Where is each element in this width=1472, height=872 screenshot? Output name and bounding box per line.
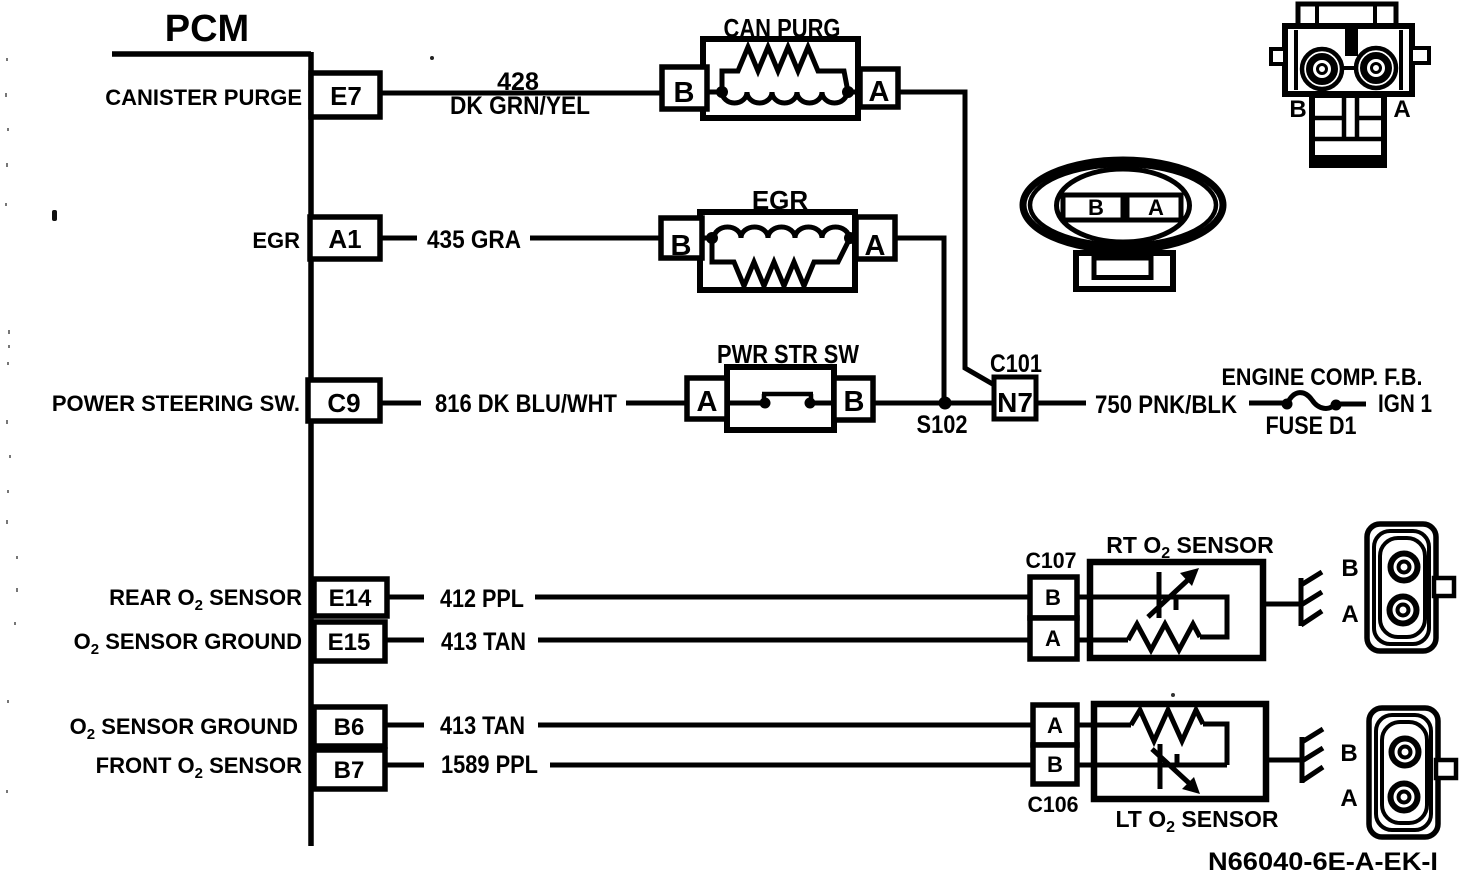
connector C107 pin B — [1030, 577, 1077, 618]
CAN PURG node dots — [716, 86, 728, 98]
CAN PURG internal stubs — [707, 90, 860, 95]
svg-text:B: B — [671, 230, 692, 262]
square connector (CAN PURG face view) — [1271, 4, 1429, 165]
svg-text:A: A — [869, 76, 890, 108]
LT O2 sensor ground wire — [1266, 758, 1300, 763]
svg-text:IGN 1: IGN 1 — [1378, 390, 1432, 418]
wire A1 stub — [380, 236, 417, 241]
fuse D1 — [1282, 393, 1342, 411]
EGR pin A — [856, 217, 895, 262]
CAN PURG internal resistor — [722, 47, 848, 92]
svg-text:O2 SENSOR GROUND: O2 SENSOR GROUND — [70, 714, 298, 743]
pin E14 — [314, 579, 387, 616]
wire 435 to EGR B — [530, 236, 661, 241]
PCM connector rail — [112, 52, 311, 846]
svg-text:A: A — [1148, 195, 1164, 220]
solenoid CAN PURG body — [703, 39, 858, 118]
RT O2 sensor internal resistor — [1128, 624, 1200, 650]
svg-text:A1: A1 — [328, 224, 361, 254]
LT O2 sensor variable element — [1152, 744, 1200, 794]
svg-text:413 TAN: 413 TAN — [440, 712, 525, 740]
svg-text:A: A — [697, 386, 718, 418]
svg-text:B6: B6 — [334, 714, 365, 741]
wire PWR STR SW B to N7 and beyond — [873, 401, 1086, 406]
svg-text:FUSE D1: FUSE D1 — [1266, 412, 1357, 440]
svg-text:A: A — [1340, 785, 1357, 812]
svg-text:816 DK BLU/WHT: 816 DK BLU/WHT — [435, 390, 617, 418]
ground (RT O2) — [1301, 572, 1322, 626]
LT O2 harness connector — [1369, 708, 1456, 837]
wire 413 to C107 A — [538, 638, 1030, 643]
switch PWR STR SW body — [727, 367, 834, 430]
svg-text:LT O2 SENSOR: LT O2 SENSOR — [1115, 806, 1278, 836]
svg-text:POWER STEERING SW.: POWER STEERING SW. — [52, 391, 300, 416]
pin A1 — [310, 217, 380, 259]
connector C106 pin B — [1033, 745, 1077, 784]
connector C106 pin A — [1033, 705, 1077, 745]
RT O2 sensor internal wires — [1077, 597, 1227, 640]
svg-text:A: A — [865, 230, 886, 262]
LT O2 sensor internal resistor — [1131, 710, 1203, 741]
svg-text:DK GRN/YEL: DK GRN/YEL — [450, 92, 590, 120]
wire EGR A down to S102 — [895, 238, 944, 400]
svg-text:B: B — [1340, 740, 1357, 767]
RT O2 harness connector — [1367, 524, 1454, 651]
connector pin N7 — [994, 377, 1036, 419]
EGR node dots — [706, 232, 718, 244]
ground (LT O2) — [1302, 729, 1323, 783]
svg-text:B: B — [1289, 96, 1306, 123]
svg-text:435 GRA: 435 GRA — [427, 226, 521, 254]
svg-text:A: A — [1393, 96, 1410, 123]
svg-text:CANISTER PURGE: CANISTER PURGE — [105, 85, 302, 110]
svg-text:A: A — [1341, 601, 1358, 628]
svg-text:O2 SENSOR GROUND: O2 SENSOR GROUND — [74, 629, 302, 658]
pin B6 — [314, 707, 385, 746]
pin E7 — [311, 73, 380, 117]
wire 750 to fuse — [1249, 401, 1284, 406]
svg-text:PCM: PCM — [165, 8, 249, 50]
pin E15 — [314, 622, 385, 661]
svg-text:413 TAN: 413 TAN — [441, 628, 526, 656]
svg-text:C107: C107 — [1026, 548, 1077, 573]
wire E15 stub — [385, 638, 424, 643]
RT O2 sensor ground wire — [1263, 602, 1299, 607]
LT O2 sensor internal wires — [1077, 724, 1227, 765]
svg-text:B: B — [844, 386, 865, 418]
wire fuse to IGN 1 — [1336, 402, 1366, 407]
CAN PURG internal coil — [722, 92, 847, 103]
svg-text:C9: C9 — [327, 388, 360, 418]
svg-text:C101: C101 — [990, 350, 1042, 378]
svg-text:N7: N7 — [997, 387, 1033, 418]
svg-text:B: B — [1045, 585, 1061, 610]
svg-text:FRONT O2 SENSOR: FRONT O2 SENSOR — [96, 753, 302, 782]
svg-text:N66040-6E-A-EK-I: N66040-6E-A-EK-I — [1208, 848, 1438, 872]
svg-text:RT O2 SENSOR: RT O2 SENSOR — [1106, 532, 1274, 562]
svg-text:S102: S102 — [917, 411, 968, 439]
svg-text:412 PPL: 412 PPL — [440, 585, 524, 613]
RT O2 sensor variable element — [1148, 568, 1199, 618]
wire CAN PURG A down to C101 — [898, 92, 996, 386]
pin B7 — [314, 750, 385, 789]
pin C9 — [308, 380, 380, 421]
wire 816 to PWR STR SW A — [626, 401, 687, 406]
svg-text:B7: B7 — [334, 757, 365, 784]
splice S102 — [939, 397, 952, 410]
svg-text:A: A — [1047, 713, 1063, 738]
RT O2 sensor body — [1090, 562, 1263, 658]
switch contacts — [727, 394, 834, 409]
CAN PURG pin A — [860, 69, 898, 108]
oval connector (EGR face view) — [1023, 160, 1223, 289]
PWR STR SW pin B — [834, 378, 873, 420]
svg-text:REAR O2 SENSOR: REAR O2 SENSOR — [109, 585, 302, 614]
svg-text:ENGINE COMP. F.B.: ENGINE COMP. F.B. — [1222, 364, 1423, 391]
CAN PURG pin B — [662, 67, 707, 109]
svg-text:B: B — [1047, 752, 1063, 777]
PWR STR SW pin A — [687, 378, 727, 419]
wire B6 stub — [385, 723, 424, 728]
svg-text:EGR: EGR — [252, 228, 300, 253]
wire 413 to C106 A — [538, 723, 1033, 728]
svg-text:1589 PPL: 1589 PPL — [441, 751, 538, 779]
wire E7 to CAN PURG B — [380, 91, 662, 96]
svg-text:B: B — [674, 77, 695, 109]
svg-text:C106: C106 — [1028, 792, 1079, 817]
EGR internal coil — [714, 227, 849, 238]
solenoid EGR body — [700, 212, 855, 290]
svg-text:E15: E15 — [328, 629, 371, 656]
LT O2 sensor body — [1094, 704, 1266, 799]
wire B7 stub — [385, 763, 424, 768]
svg-text:B: B — [1341, 555, 1358, 582]
connector C107 pin A — [1030, 618, 1077, 659]
wire C9 stub — [380, 401, 421, 406]
wire E14 stub — [387, 595, 424, 600]
svg-text:750 PNK/BLK: 750 PNK/BLK — [1095, 391, 1237, 419]
EGR internal resistor — [712, 238, 850, 286]
wire 412 to C107 B — [535, 595, 1030, 600]
svg-text:E7: E7 — [330, 81, 362, 111]
svg-text:A: A — [1045, 626, 1061, 651]
svg-text:E14: E14 — [329, 585, 372, 612]
wire 1589 to C106 B — [550, 763, 1033, 768]
EGR internal stubs — [702, 236, 856, 241]
svg-text:B: B — [1088, 195, 1104, 220]
EGR pin B — [661, 218, 702, 262]
